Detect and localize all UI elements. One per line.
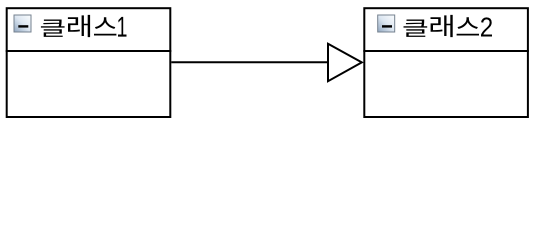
collapse icon of 클래스2: gradient button square <box>378 15 395 32</box>
header text 클래스1 <box>41 15 127 37</box>
generalization wire from 클래스1 to arrowhead <box>171 61 328 63</box>
collapse icon of 클래스2: minus bar <box>382 25 392 27</box>
header text 클래스2 <box>404 15 493 37</box>
class box 클래스1 (left) outer frame <box>7 8 171 117</box>
generalization arrowhead (hollow triangle) pointing at 클래스2 <box>328 44 362 81</box>
class box 클래스2 header divider <box>363 50 529 52</box>
collapse icon of 클래스1: minus bar <box>18 25 28 27</box>
class box 클래스1 header divider <box>6 50 172 52</box>
collapse icon of 클래스1: gradient button square <box>14 15 31 32</box>
class box 클래스2 (right) outer frame <box>364 8 528 117</box>
